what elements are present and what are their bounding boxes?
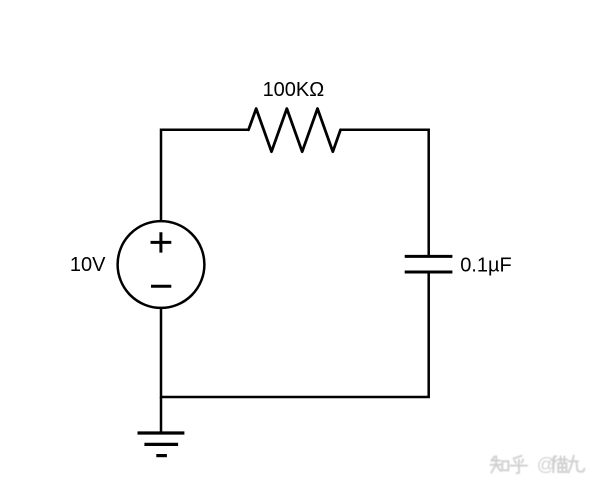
wire: top-left from resistor to voltage source top bbox=[161, 130, 249, 221]
ground symbol bar 2 bbox=[144, 443, 178, 446]
voltage source minus sign bbox=[151, 285, 171, 288]
watermark char 知 bbox=[491, 456, 502, 472]
wire: ground stub bbox=[160, 397, 163, 433]
ground symbol bar 1 bbox=[138, 431, 185, 434]
watermark 知乎 @猫九 (drawn, light gray) bbox=[491, 454, 585, 475]
voltage source V1 circle bbox=[118, 221, 205, 308]
svg-text:100KΩ: 100KΩ bbox=[263, 79, 325, 101]
watermark char 猫 bbox=[552, 456, 556, 472]
watermark char 乎 bbox=[511, 456, 527, 473]
wire: voltage source bottom, bottom rail, up to capacitor bottom plate bbox=[161, 273, 429, 397]
ground symbol bar 3 bbox=[156, 454, 167, 457]
voltage source plus sign bbox=[151, 232, 172, 252]
watermark char 九 bbox=[568, 456, 584, 473]
capacitor C top plate bbox=[405, 255, 453, 258]
capacitor C bottom plate bbox=[405, 271, 453, 274]
wire: top-right from resistor to capacitor top plate bbox=[341, 130, 429, 255]
svg-text:0.1µF: 0.1µF bbox=[460, 254, 512, 276]
resistor R (zigzag) bbox=[249, 109, 341, 152]
svg-text:10V: 10V bbox=[70, 254, 106, 276]
